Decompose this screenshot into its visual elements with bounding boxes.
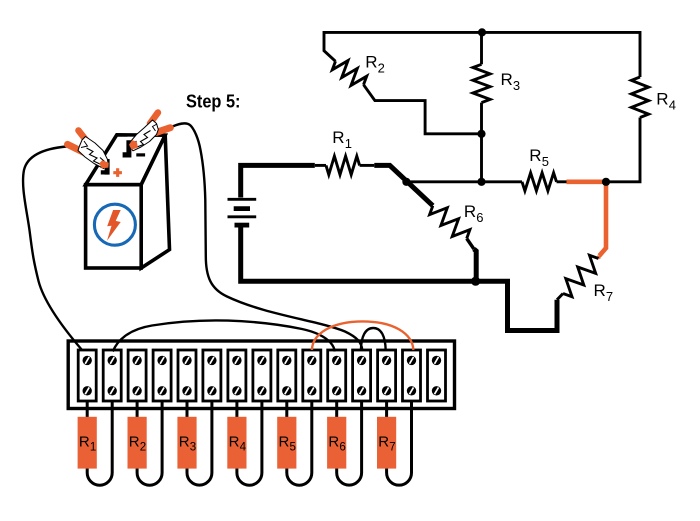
terminal 2 cell bbox=[103, 350, 121, 401]
svg-text:1: 1 bbox=[90, 442, 96, 454]
terminal 11 screws bbox=[332, 356, 341, 396]
terminal 7 cell bbox=[228, 350, 246, 401]
svg-text:3: 3 bbox=[513, 78, 520, 93]
battery symbol: plate long bottom bbox=[228, 215, 257, 218]
terminal 6 screws bbox=[207, 356, 216, 396]
wire: R4 bottom lead bbox=[606, 118, 640, 182]
svg-text:R: R bbox=[365, 52, 377, 71]
junction: R3/R5 node dot bbox=[477, 178, 485, 186]
svg-text:R: R bbox=[594, 281, 606, 300]
terminal strip: body bbox=[68, 341, 454, 409]
resistor R3 bbox=[473, 64, 490, 102]
terminal 9 screws bbox=[282, 356, 291, 396]
wire: jumper terminal 2 to terminal 11 bbox=[113, 320, 335, 351]
svg-text:3: 3 bbox=[190, 442, 196, 454]
battery logo: lightning bolt bbox=[107, 210, 121, 241]
battery terminal + bbox=[101, 159, 110, 175]
resistor R3 (pictorial) body bbox=[177, 417, 196, 469]
terminal 1 screws bbox=[83, 356, 92, 396]
terminal 13 screws bbox=[382, 356, 391, 396]
svg-text:4: 4 bbox=[669, 98, 676, 113]
battery symbol: plate long top bbox=[228, 198, 257, 201]
wire: R6 lower lead bbox=[467, 239, 474, 250]
label + (orange) bbox=[113, 168, 122, 177]
wire: R3 bottom lead bbox=[480, 103, 483, 182]
resistor R6 (pictorial) body bbox=[327, 417, 346, 469]
wire: thick R6 bottom vertical bbox=[474, 249, 476, 281]
alligator clip + : orange tip bbox=[99, 160, 109, 168]
svg-text:6: 6 bbox=[339, 442, 345, 454]
terminal 15 cell bbox=[428, 350, 446, 401]
alligator clip + : handle lower bbox=[68, 144, 86, 153]
alligator clip + : jaw teeth seam bbox=[87, 148, 105, 165]
svg-text:R: R bbox=[656, 90, 668, 109]
wire: orange new wire (R5 to R7 node) bbox=[567, 182, 607, 256]
wire: thick bottom loop bbox=[241, 227, 557, 331]
svg-text:7: 7 bbox=[606, 289, 613, 304]
resistor R5 (pictorial) lead wires bbox=[287, 401, 312, 485]
svg-text:6: 6 bbox=[476, 210, 483, 225]
terminal 9 cell bbox=[278, 350, 296, 401]
terminal 8 cell bbox=[253, 350, 271, 401]
wire: R3 top lead bbox=[480, 32, 483, 64]
svg-text:5: 5 bbox=[542, 154, 549, 169]
svg-text:4: 4 bbox=[240, 442, 247, 454]
terminal 15 screws bbox=[432, 356, 441, 396]
terminal 10 cell bbox=[303, 350, 321, 401]
wire: thick R1 to R6 link bbox=[374, 165, 433, 205]
resistor R5 (pictorial) body bbox=[277, 417, 296, 469]
battery terminal - bbox=[123, 140, 132, 157]
wire: R2 bottom lead to R3 node bbox=[364, 85, 482, 134]
resistor R7 bbox=[563, 255, 599, 296]
alligator clip - : orange tip bbox=[129, 140, 138, 150]
terminal 14 screws bbox=[407, 356, 416, 396]
svg-text:2: 2 bbox=[378, 60, 385, 75]
junction: top node dot bbox=[478, 28, 486, 36]
svg-text:Step 5:: Step 5: bbox=[186, 91, 241, 112]
terminal 13 cell bbox=[378, 350, 396, 401]
terminal 2 screws bbox=[108, 356, 117, 396]
terminal 10 screws bbox=[307, 356, 316, 396]
wire: thick loop battery to R1 bbox=[241, 165, 315, 197]
battery symbol: plate short bottom bbox=[235, 223, 250, 228]
alligator clip - : jaw head bbox=[129, 120, 158, 151]
wire: battery + lead to terminal 1 bbox=[23, 147, 82, 351]
terminal 5 screws bbox=[182, 356, 191, 396]
alligator clip - : handle upper bbox=[150, 113, 158, 124]
svg-text:R: R bbox=[328, 434, 339, 451]
terminal 4 cell bbox=[153, 350, 171, 401]
svg-text:R: R bbox=[179, 434, 190, 451]
wire: battery - lead to terminal 12 bbox=[170, 123, 362, 350]
resistor R6 bbox=[430, 206, 470, 239]
battery logo: blue circle bbox=[94, 204, 135, 245]
wire: R4 top lead bbox=[639, 31, 642, 77]
terminal 6 cell bbox=[203, 350, 221, 401]
svg-text:R: R bbox=[501, 70, 513, 89]
resistor R4 (pictorial) lead wires bbox=[237, 401, 262, 485]
wire: R2 top lead bbox=[324, 31, 336, 61]
resistor R5 bbox=[522, 173, 557, 191]
svg-text:R: R bbox=[529, 146, 541, 165]
junction: R5/R4/R7 node dot bbox=[602, 178, 610, 186]
alligator clip + : jaw head bbox=[78, 137, 108, 169]
wire: mid node to R5 bbox=[406, 180, 522, 183]
terminal 12 screws bbox=[357, 356, 366, 396]
terminal 11 cell bbox=[328, 350, 346, 401]
svg-text:R: R bbox=[378, 434, 389, 451]
svg-text:2: 2 bbox=[140, 442, 146, 454]
junction: bottom node dot bbox=[471, 277, 480, 286]
junction: mid node dot (thick diagonal) bbox=[402, 178, 410, 186]
terminal 14 cell bbox=[403, 350, 421, 401]
resistor R7 (pictorial) lead wires bbox=[387, 401, 412, 485]
terminal 3 screws bbox=[132, 356, 141, 396]
svg-text:R: R bbox=[79, 434, 90, 451]
svg-text:R: R bbox=[129, 434, 140, 451]
wire: orange lead to R7 bbox=[597, 256, 601, 259]
resistor R1 (pictorial) lead wires bbox=[87, 401, 112, 485]
terminal 1 cell bbox=[78, 350, 96, 401]
alligator clip + : handle upper bbox=[79, 131, 88, 143]
svg-text:5: 5 bbox=[290, 442, 296, 454]
resistor R3 (pictorial) lead wires bbox=[187, 401, 212, 485]
resistor R1 (pictorial) body bbox=[78, 417, 97, 469]
svg-text:R: R bbox=[332, 128, 344, 147]
terminal 12 cell bbox=[353, 350, 371, 401]
alligator clip + : jaw back notch bbox=[81, 141, 88, 148]
svg-text:R: R bbox=[229, 434, 240, 451]
resistor R7 (pictorial) body bbox=[377, 417, 396, 469]
resistor R2 bbox=[332, 61, 366, 86]
wire: top bus node bbox=[324, 31, 640, 34]
resistor R6 (pictorial) lead wires bbox=[337, 401, 362, 485]
terminal 8 screws bbox=[257, 356, 266, 396]
resistor R4 (pictorial) body bbox=[227, 417, 246, 469]
wire: jumper terminal 12 to terminal 13 bbox=[361, 328, 386, 351]
resistor R4 bbox=[631, 77, 648, 118]
svg-text:R: R bbox=[279, 434, 290, 451]
alligator clip - : jaw back notch bbox=[153, 124, 158, 131]
resistor R2 (pictorial) lead wires bbox=[137, 401, 162, 485]
terminal 5 cell bbox=[178, 350, 196, 401]
battery symbol: plate short bbox=[234, 206, 250, 211]
terminal 7 screws bbox=[232, 356, 241, 396]
svg-text:7: 7 bbox=[389, 442, 395, 454]
svg-text:1: 1 bbox=[345, 136, 352, 151]
wire: orange jumper terminal 10 to terminal 14 bbox=[312, 321, 414, 350]
alligator clip - : handle lower bbox=[156, 128, 170, 133]
battery (pictorial): box bbox=[86, 135, 170, 268]
wire: R1 right lead bbox=[360, 164, 375, 167]
label - (black) bbox=[136, 153, 145, 156]
resistor R2 (pictorial) body bbox=[128, 417, 147, 469]
junction: R2/R3 node dot bbox=[477, 130, 485, 138]
wire: R5 right lead bbox=[557, 180, 568, 183]
wire: R7 bottom lead bbox=[557, 294, 563, 300]
terminal 3 cell bbox=[128, 350, 146, 401]
resistor R1 bbox=[315, 164, 326, 167]
svg-text:R: R bbox=[464, 202, 476, 221]
terminal 4 screws bbox=[157, 356, 166, 396]
alligator clip - : jaw teeth seam bbox=[133, 131, 151, 148]
